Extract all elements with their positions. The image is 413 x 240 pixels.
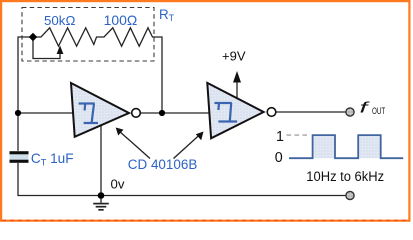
- svg-text:1: 1: [276, 129, 284, 145]
- svg-text:50kΩ: 50kΩ: [44, 13, 75, 28]
- svg-text:OUT: OUT: [372, 106, 385, 116]
- svg-text:10Hz to 6kHz: 10Hz to 6kHz: [306, 169, 384, 184]
- svg-text:CT 1uF: CT 1uF: [31, 151, 74, 167]
- svg-text:0v: 0v: [111, 177, 125, 192]
- svg-text:+9V: +9V: [222, 48, 246, 63]
- svg-text:CD 40106B: CD 40106B: [128, 157, 198, 172]
- svg-text:0: 0: [275, 150, 283, 166]
- svg-text:100Ω: 100Ω: [104, 13, 138, 28]
